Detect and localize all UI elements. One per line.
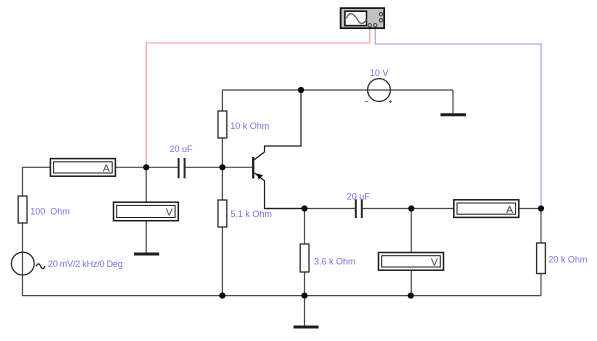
svg-text:100 Ohm: 100 Ohm (30, 207, 70, 217)
svg-text:V: V (166, 206, 173, 218)
svg-text:5.1 k Ohm: 5.1 k Ohm (230, 209, 272, 219)
svg-text:20 uF: 20 uF (347, 191, 371, 201)
svg-text:3.6 k Ohm: 3.6 k Ohm (314, 257, 356, 267)
svg-text:A: A (103, 163, 110, 175)
svg-text:20 mV/2 kHz/0 Deg: 20 mV/2 kHz/0 Deg (48, 259, 123, 269)
svg-text:V: V (431, 256, 438, 268)
svg-text:10 k Ohm: 10 k Ohm (230, 121, 269, 131)
svg-text:20 k Ohm: 20 k Ohm (548, 255, 587, 265)
svg-text:20 uF: 20 uF (170, 144, 194, 154)
svg-text:10 V: 10 V (370, 68, 389, 78)
svg-text:A: A (506, 204, 513, 216)
